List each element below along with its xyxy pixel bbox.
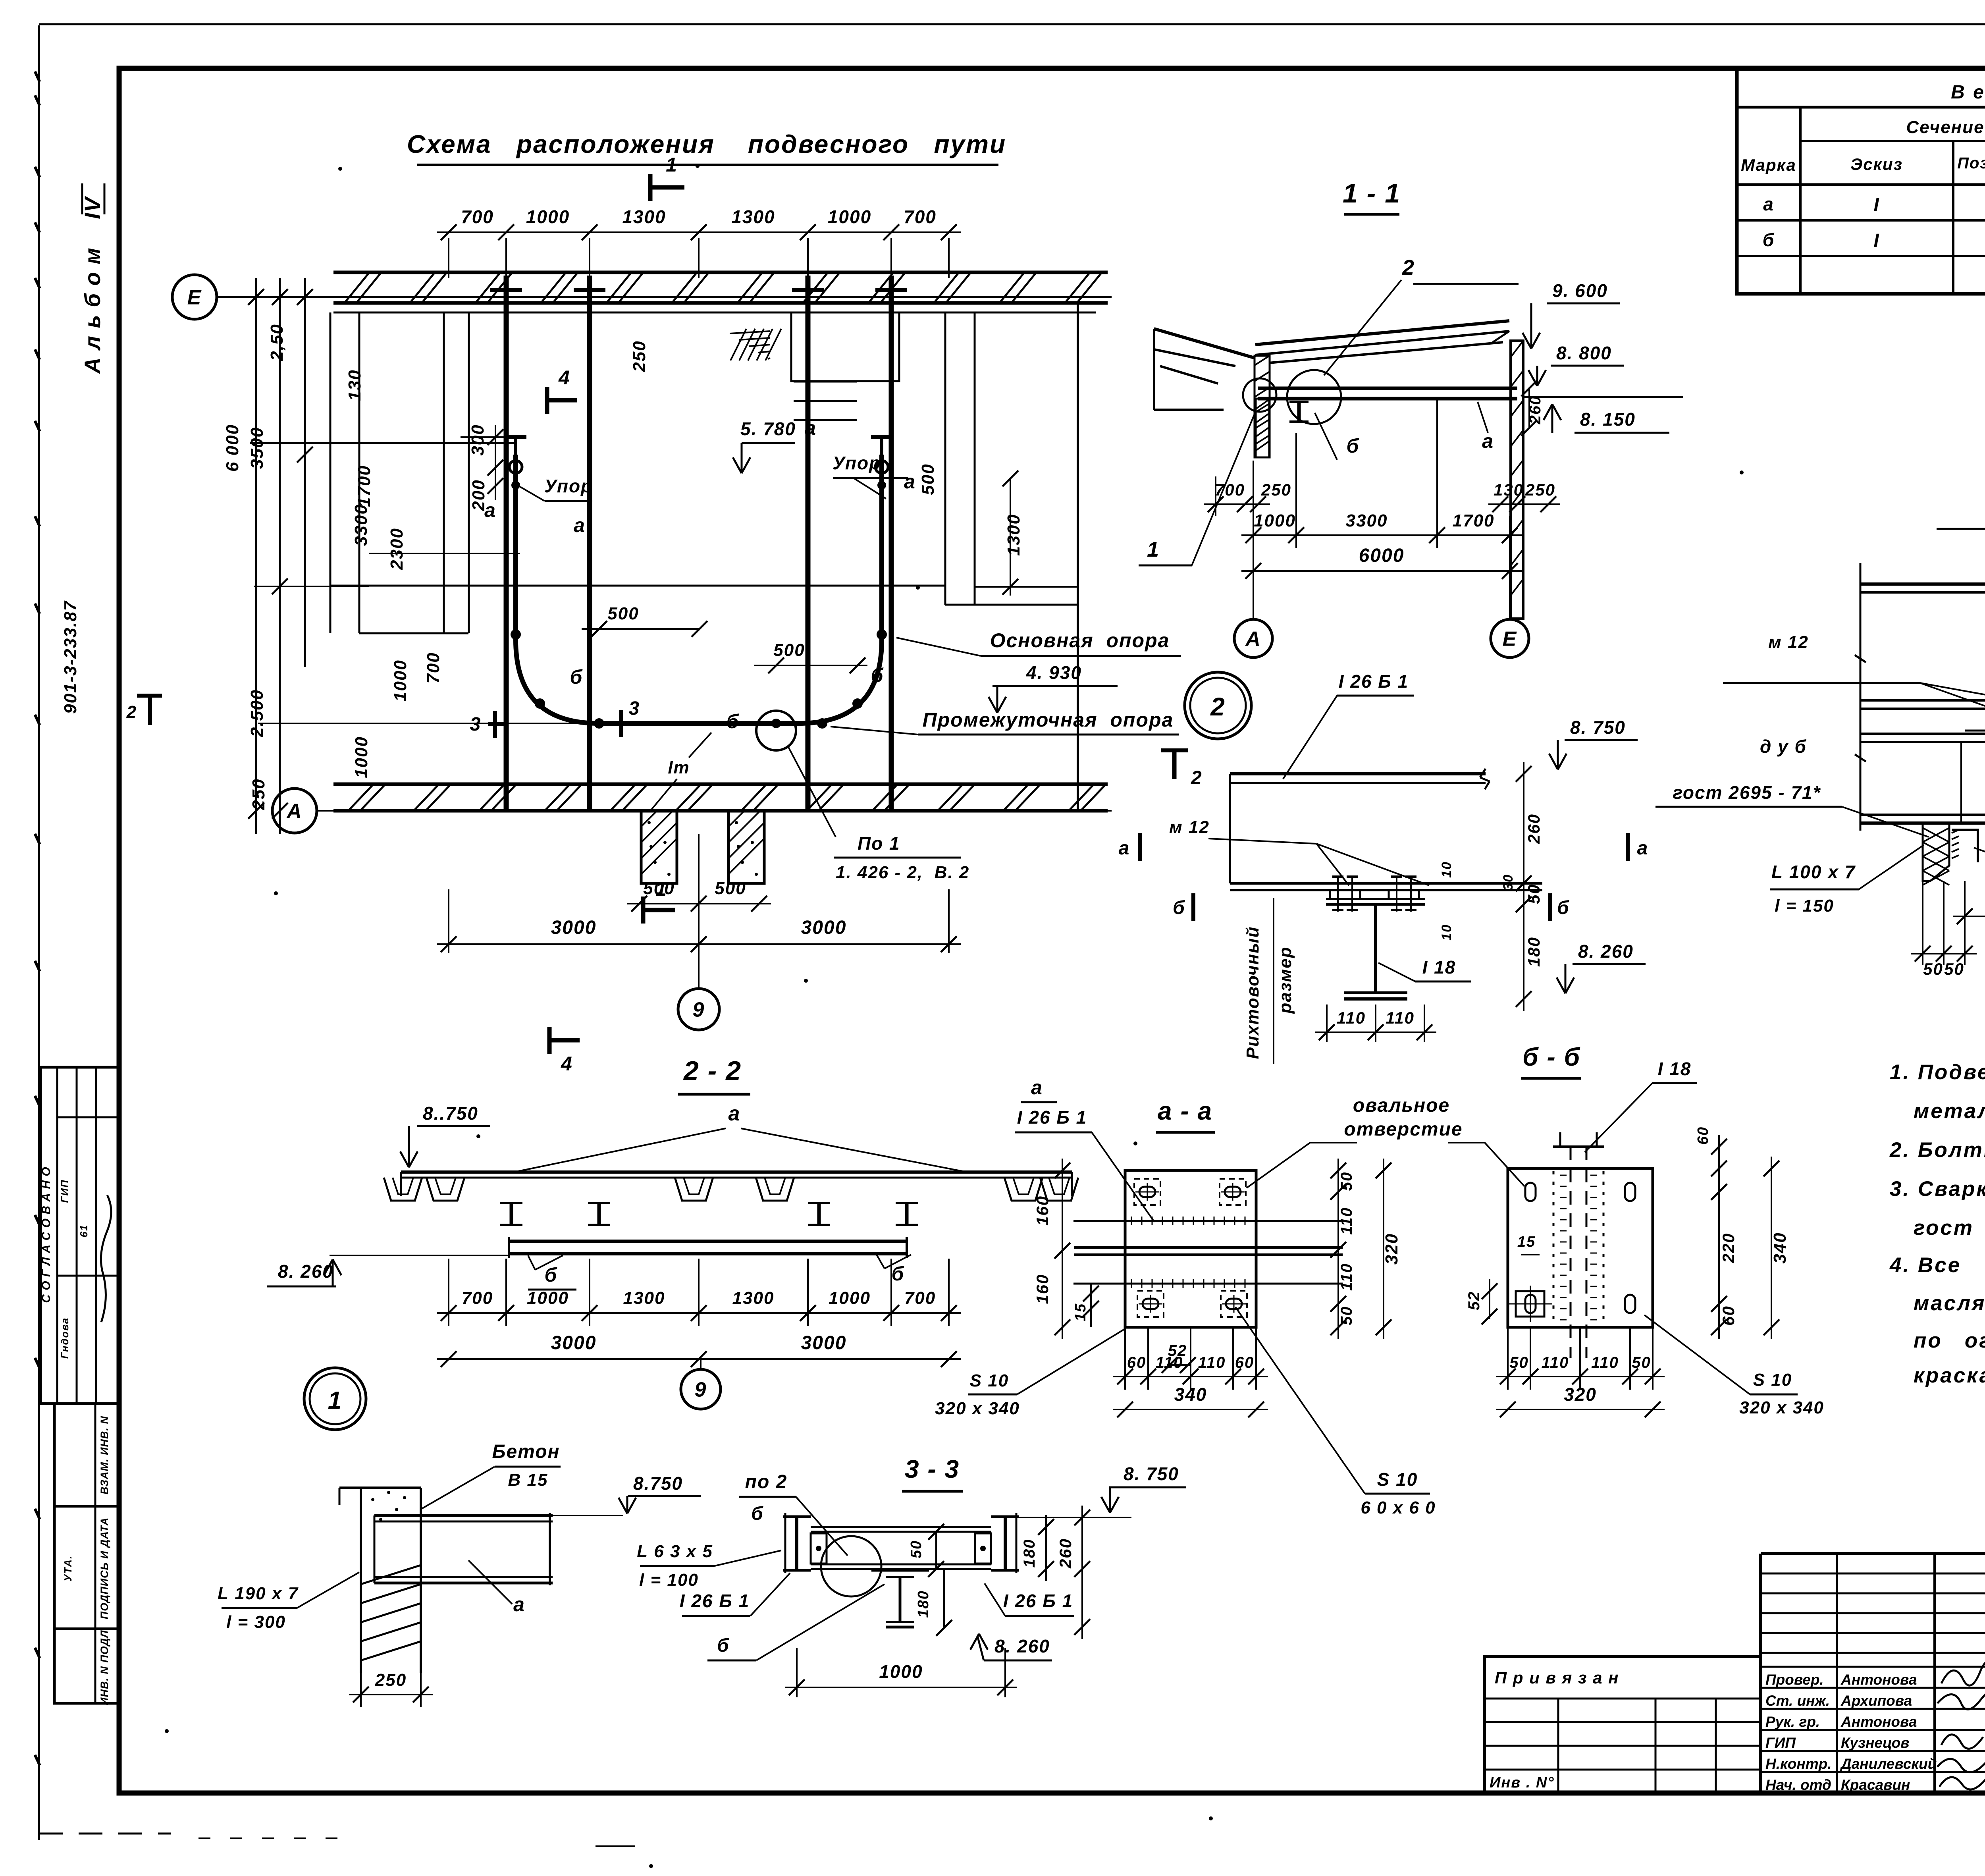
suspension beam a3 bbox=[806, 276, 811, 810]
svg-text:8..750: 8..750 bbox=[423, 1103, 478, 1124]
interior floor line bbox=[330, 585, 945, 587]
svg-text:а: а bbox=[805, 417, 817, 439]
svg-text:50: 50 bbox=[908, 1540, 925, 1558]
detail2 top beam bbox=[1230, 772, 1486, 775]
svg-text:3000: 3000 bbox=[551, 1332, 597, 1353]
svg-text:110: 110 bbox=[1337, 1008, 1366, 1027]
a-a bottom dims bbox=[1124, 1327, 1126, 1390]
svg-text:60: 60 bbox=[1235, 1354, 1255, 1371]
svg-text:250: 250 bbox=[375, 1670, 407, 1690]
svg-text:Эскиз: Эскиз bbox=[1850, 155, 1903, 174]
svg-text:320: 320 bbox=[1564, 1384, 1597, 1405]
svg-text:Провер.: Провер. bbox=[1765, 1672, 1824, 1688]
svg-text:1300: 1300 bbox=[1004, 514, 1023, 556]
svg-text:700: 700 bbox=[424, 652, 443, 683]
title block central grid bbox=[1759, 1554, 1762, 1793]
detail2 bolt pads bbox=[1330, 890, 1360, 899]
3-3 left I-beam bbox=[783, 1515, 811, 1518]
3-3 end angles bbox=[811, 1533, 827, 1564]
svg-text:1300: 1300 bbox=[622, 206, 666, 227]
3-3 I18 below bbox=[871, 1570, 929, 1572]
svg-text:I 26 Б 1: I 26 Б 1 bbox=[1017, 1107, 1087, 1128]
2-2 runway beam bbox=[509, 1240, 907, 1243]
svg-text:60: 60 bbox=[1695, 1126, 1711, 1145]
section cut 2 right bbox=[1161, 748, 1188, 752]
svg-text:700: 700 bbox=[461, 206, 494, 227]
svg-text:а: а bbox=[1119, 838, 1130, 859]
paper outer edge left bbox=[38, 25, 40, 1840]
monorail track b U-shape bbox=[516, 455, 882, 723]
svg-text:3000: 3000 bbox=[801, 1332, 847, 1353]
plan bottom 3000 dims bbox=[448, 889, 449, 953]
svg-text:901-3-233.87: 901-3-233.87 bbox=[61, 600, 80, 714]
svg-text:б: б bbox=[717, 1635, 730, 1656]
svg-text:l = 300: l = 300 bbox=[226, 1612, 286, 1632]
b-b right dims bbox=[1718, 1135, 1720, 1180]
svg-text:3000: 3000 bbox=[551, 917, 597, 938]
beton dim 250 bbox=[360, 1673, 362, 1707]
svg-text:8. 260: 8. 260 bbox=[1578, 941, 1634, 962]
svg-text:110: 110 bbox=[1338, 1263, 1355, 1291]
svg-text:6 0 x 6 0: 6 0 x 6 0 bbox=[1361, 1498, 1436, 1517]
svg-text:l = 150: l = 150 bbox=[1775, 896, 1834, 916]
2-2 detail circle 1 bbox=[304, 1368, 366, 1430]
4-4 left break line bbox=[1860, 563, 1862, 831]
detail2 I18 beam below bbox=[1326, 898, 1425, 900]
svg-text:700: 700 bbox=[904, 1288, 936, 1308]
svg-text:ГИП: ГИП bbox=[1765, 1735, 1796, 1751]
svg-text:I: I bbox=[1873, 195, 1879, 216]
svg-text:ИНВ. N ПОДЛ.: ИНВ. N ПОДЛ. bbox=[98, 1627, 110, 1705]
svg-text:по 2: по 2 bbox=[745, 1471, 788, 1492]
svg-text:ПОДПИСЬ И ДАТА: ПОДПИСЬ И ДАТА bbox=[98, 1517, 110, 1620]
svg-text:м 12: м 12 bbox=[1768, 632, 1809, 652]
svg-text:Антонова: Антонова bbox=[1840, 1672, 1917, 1688]
svg-text:700: 700 bbox=[1215, 480, 1245, 499]
interior niche middle bbox=[791, 312, 899, 381]
svg-text:Е: Е bbox=[187, 286, 202, 309]
svg-text:отверстие: отверстие bbox=[1344, 1119, 1463, 1140]
svg-text:50: 50 bbox=[1923, 960, 1943, 978]
svg-text:I 26 Б 1: I 26 Б 1 bbox=[1339, 671, 1409, 692]
svg-text:50: 50 bbox=[1524, 884, 1543, 904]
svg-text:б: б bbox=[1763, 229, 1775, 250]
svg-text:ГИП: ГИП bbox=[59, 1179, 71, 1203]
svg-text:Нач. отд: Нач. отд bbox=[1765, 1777, 1831, 1793]
svg-text:по огрунтовке . На ездов: по огрунтовке . На ездовую поверхность bbox=[1914, 1329, 1985, 1352]
svg-text:500: 500 bbox=[918, 463, 938, 495]
svg-text:В е д о м о с т ь э л е м: В е д о м о с т ь э л е м е н т о в bbox=[1951, 82, 1985, 103]
scan specks bbox=[338, 167, 342, 171]
4-4 rail beam lines bbox=[1860, 699, 1985, 702]
svg-text:220: 220 bbox=[1719, 1233, 1738, 1263]
svg-text:2.500: 2.500 bbox=[247, 689, 267, 737]
svg-text:340: 340 bbox=[1174, 1384, 1207, 1405]
1-1 roof slab bbox=[1255, 321, 1509, 345]
svg-text:260: 260 bbox=[1056, 1538, 1075, 1569]
svg-text:1: 1 bbox=[666, 154, 678, 176]
svg-text:б - б: б - б bbox=[1522, 1043, 1581, 1071]
section cut 1 bottom bbox=[643, 908, 675, 912]
svg-text:180: 180 bbox=[1021, 1539, 1038, 1568]
svg-text:Н.контр.: Н.контр. bbox=[1765, 1756, 1831, 1772]
svg-text:320 x 340: 320 x 340 bbox=[1739, 1398, 1824, 1417]
svg-text:320: 320 bbox=[1382, 1233, 1401, 1265]
svg-text:S 10: S 10 bbox=[970, 1371, 1009, 1390]
1-1 left roof wedge bbox=[1154, 329, 1255, 358]
b-b plate bbox=[1508, 1168, 1653, 1327]
svg-text:250: 250 bbox=[630, 340, 649, 372]
detail 2 callout circle bbox=[1185, 672, 1251, 739]
svg-text:Схема расположения подвес: Схема расположения подвесного пути bbox=[407, 130, 1006, 158]
svg-text:П р и в я з а н: П р и в я з а н bbox=[1495, 1668, 1619, 1687]
svg-text:52: 52 bbox=[1465, 1291, 1483, 1311]
svg-text:1000: 1000 bbox=[526, 206, 570, 227]
svg-text:Данилевский: Данилевский bbox=[1840, 1756, 1937, 1772]
svg-text:260: 260 bbox=[1524, 814, 1543, 844]
svg-text:Марка: Марка bbox=[1741, 156, 1796, 174]
beton beam a bbox=[374, 1514, 553, 1517]
1-1 bottom dims row2 bbox=[1241, 534, 1522, 536]
svg-text:50: 50 bbox=[1632, 1354, 1651, 1371]
svg-text:Ст. инж.: Ст. инж. bbox=[1765, 1693, 1830, 1709]
section cut 4 bottom bbox=[549, 1038, 580, 1043]
svg-text:110: 110 bbox=[1338, 1207, 1355, 1235]
1-1 leader 2 bbox=[1324, 280, 1401, 375]
b-b beam hidden lines bbox=[1570, 1147, 1572, 1358]
svg-text:50: 50 bbox=[1944, 960, 1964, 978]
svg-text:Гндова: Гндова bbox=[59, 1317, 71, 1359]
2-2 dim chain 1 bbox=[448, 1259, 449, 1326]
svg-text:1700: 1700 bbox=[355, 465, 374, 507]
svg-text:б: б bbox=[1557, 897, 1570, 918]
svg-text:1000: 1000 bbox=[391, 659, 410, 702]
b-b oval holes bbox=[1525, 1183, 1536, 1201]
svg-text:6000: 6000 bbox=[1359, 545, 1405, 566]
3-3 right dims 180 260 bbox=[1045, 1515, 1047, 1581]
plan upor dim chain 300 200 bbox=[495, 425, 496, 500]
svg-text:4. 930: 4. 930 bbox=[1026, 662, 1082, 683]
svg-text:а: а bbox=[904, 470, 916, 493]
section cut 2 left margin bbox=[137, 694, 162, 698]
grid hatch symbol bbox=[730, 329, 746, 361]
a-a oval holes with dashed squares bbox=[1139, 1187, 1155, 1197]
svg-text:Архипова: Архипова bbox=[1840, 1693, 1912, 1709]
svg-text:60: 60 bbox=[1127, 1354, 1147, 1371]
svg-text:Основная опора: Основная опора bbox=[990, 629, 1170, 652]
svg-text:Антонова: Антонова bbox=[1840, 1714, 1917, 1730]
svg-text:110: 110 bbox=[1591, 1354, 1619, 1371]
svg-text:110: 110 bbox=[1542, 1354, 1569, 1371]
concrete pier left bbox=[641, 811, 677, 883]
svg-text:Поз: Поз bbox=[1957, 154, 1985, 172]
svg-text:8. 750: 8. 750 bbox=[1570, 717, 1626, 738]
svg-text:10: 10 bbox=[1439, 924, 1454, 941]
1-1 callout circle 1 bbox=[1243, 378, 1276, 412]
4-4 lower beam lines bbox=[1860, 733, 1985, 735]
svg-text:4: 4 bbox=[561, 1053, 573, 1075]
svg-text:С О Г Л А С О В А Н О: С О Г Л А С О В А Н О bbox=[40, 1166, 53, 1303]
svg-text:3300: 3300 bbox=[1346, 511, 1388, 530]
svg-text:1: 1 bbox=[1147, 538, 1160, 561]
4-4 wooden beam b bbox=[1860, 814, 1985, 816]
svg-text:110: 110 bbox=[1386, 1008, 1415, 1027]
table vedomost elementov bbox=[1737, 67, 1985, 294]
svg-text:8. 750: 8. 750 bbox=[1124, 1463, 1179, 1484]
3-3 right I-beam bbox=[991, 1515, 1019, 1518]
svg-text:30: 30 bbox=[1501, 874, 1516, 891]
a-a plate bbox=[1125, 1170, 1256, 1327]
svg-text:200: 200 bbox=[469, 479, 488, 511]
track stop bars (upor) bbox=[505, 435, 526, 439]
svg-text:8.750: 8.750 bbox=[633, 1473, 683, 1494]
svg-text:I 18: I 18 bbox=[1658, 1059, 1692, 1079]
1-1 axis A bbox=[1234, 619, 1272, 657]
table grid bbox=[1737, 183, 1985, 186]
svg-text:1300: 1300 bbox=[732, 1288, 775, 1308]
svg-text:180: 180 bbox=[915, 1590, 932, 1618]
1-1 right wall bbox=[1511, 341, 1523, 619]
svg-text:4: 4 bbox=[558, 366, 570, 389]
section cut 3 right bbox=[619, 710, 623, 737]
axis circle E bbox=[172, 275, 217, 319]
svg-text:1700: 1700 bbox=[1453, 511, 1495, 530]
4-4 angle piece bbox=[1952, 830, 1978, 862]
svg-text:3. Сварку производить эле: 3. Сварку производить электродами Э 42 bbox=[1890, 1177, 1985, 1201]
2-2 I-beam symbols bbox=[510, 1203, 513, 1225]
node callout Po1 circle bbox=[756, 711, 796, 750]
svg-text:52: 52 bbox=[1168, 1342, 1187, 1359]
svg-text:2: 2 bbox=[1210, 692, 1226, 721]
svg-text:А л ь б о м IV: А л ь б о м IV bbox=[80, 195, 105, 374]
svg-text:S 10: S 10 bbox=[1377, 1469, 1418, 1490]
svg-text:а: а bbox=[513, 1593, 525, 1616]
svg-text:500: 500 bbox=[715, 879, 746, 898]
axis circle A bbox=[272, 789, 317, 833]
detail2 bottom dims 110 110 bbox=[1326, 1005, 1328, 1042]
svg-text:1000: 1000 bbox=[352, 736, 371, 778]
svg-text:1: 1 bbox=[328, 1387, 342, 1414]
paper torn bottom edge bbox=[39, 1833, 171, 1835]
svg-text:15: 15 bbox=[1517, 1234, 1536, 1250]
svg-text:1. Подвесные пути крепятся: 1. Подвесные пути крепятся к балкам bbox=[1890, 1060, 1985, 1084]
svg-text:50: 50 bbox=[1338, 1172, 1355, 1191]
svg-text:2 - 2: 2 - 2 bbox=[683, 1056, 742, 1086]
svg-text:1000: 1000 bbox=[829, 1288, 871, 1308]
svg-text:а - а: а - а bbox=[1158, 1097, 1212, 1125]
svg-text:б: б bbox=[1173, 897, 1185, 918]
svg-text:9: 9 bbox=[693, 999, 705, 1022]
svg-text:3300: 3300 bbox=[351, 504, 371, 546]
svg-text:Инв . N°: Инв . N° bbox=[1490, 1774, 1555, 1791]
track node dots bbox=[511, 629, 521, 640]
2-2 dim chain 2 bbox=[437, 1358, 961, 1360]
axis line E bbox=[218, 296, 1112, 298]
svg-text:130: 130 bbox=[345, 369, 364, 401]
svg-text:320 x 340: 320 x 340 bbox=[935, 1399, 1020, 1418]
svg-text:краска не наносится.: краска не наносится. bbox=[1914, 1364, 1985, 1387]
svg-text:1000: 1000 bbox=[527, 1288, 569, 1308]
svg-text:а: а bbox=[728, 1102, 741, 1125]
4-4 oak block bbox=[1923, 823, 1949, 881]
svg-text:а: а bbox=[574, 514, 586, 536]
3-3 channel beam bbox=[811, 1526, 991, 1528]
svg-text:I: I bbox=[1873, 230, 1879, 251]
svg-text:д у б: д у б bbox=[1760, 736, 1807, 757]
a-a right dims bbox=[1337, 1159, 1339, 1339]
svg-text:L 190 x 7: L 190 x 7 bbox=[218, 1584, 299, 1603]
svg-text:б: б bbox=[751, 1503, 764, 1524]
svg-text:3000: 3000 bbox=[801, 917, 847, 938]
svg-text:180: 180 bbox=[1524, 937, 1543, 967]
svg-text:А: А bbox=[286, 800, 303, 823]
plan left extension lines bbox=[250, 442, 516, 444]
paper outer edge top bbox=[39, 23, 1985, 25]
svg-text:9: 9 bbox=[695, 1379, 707, 1402]
svg-text:4. Все металлоконструкции: 4. Все металлоконструкции окрасить за 2 … bbox=[1889, 1253, 1985, 1277]
svg-text:а: а bbox=[1482, 430, 1494, 452]
svg-text:гост 2695 - 71*: гост 2695 - 71* bbox=[1673, 782, 1821, 803]
svg-text:б: б bbox=[1347, 435, 1360, 457]
svg-text:2: 2 bbox=[126, 702, 137, 722]
svg-text:Красавин: Красавин bbox=[1841, 1777, 1910, 1793]
interior wall lines right bbox=[944, 312, 946, 605]
detail2 plate lines bbox=[1230, 882, 1542, 885]
svg-text:50: 50 bbox=[1338, 1306, 1355, 1325]
svg-text:8. 800: 8. 800 bbox=[1556, 343, 1612, 363]
svg-text:а: а bbox=[1763, 194, 1774, 214]
paper edge specks bbox=[35, 71, 40, 82]
svg-text:9. 600: 9. 600 bbox=[1552, 280, 1608, 301]
svg-text:130: 130 bbox=[1494, 480, 1524, 499]
top wall band bbox=[333, 271, 1108, 274]
svg-text:1 - 1: 1 - 1 bbox=[1343, 178, 1401, 208]
svg-text:По 1: По 1 bbox=[858, 833, 900, 854]
svg-text:300: 300 bbox=[468, 424, 488, 455]
1-1 runway beam a bbox=[1258, 387, 1517, 390]
svg-text:а: а bbox=[1637, 838, 1649, 859]
plan left dim lines bbox=[255, 278, 257, 834]
svg-text:500: 500 bbox=[643, 879, 675, 898]
svg-text:8. 150: 8. 150 bbox=[1580, 409, 1636, 430]
svg-text:700: 700 bbox=[904, 206, 937, 227]
svg-text:1000: 1000 bbox=[828, 206, 871, 227]
svg-text:3 - 3: 3 - 3 bbox=[905, 1455, 960, 1483]
concrete pier right bbox=[728, 811, 764, 883]
axis circle 9 plan bbox=[698, 834, 700, 988]
svg-text:масляной краской (гост 82 9: масляной краской (гост 82 92 - 85) bbox=[1914, 1292, 1985, 1315]
interior wall lines left bbox=[330, 312, 331, 633]
svg-text:3: 3 bbox=[629, 698, 640, 719]
svg-text:Упор: Упор bbox=[544, 476, 593, 496]
svg-text:L 6 3 x 5: L 6 3 x 5 bbox=[637, 1542, 713, 1561]
svg-text:а: а bbox=[1031, 1076, 1043, 1099]
1-1 wall below beam bbox=[1256, 399, 1269, 457]
svg-text:б: б bbox=[871, 664, 884, 686]
svg-text:1000: 1000 bbox=[1254, 511, 1296, 530]
svg-text:1. 426 - 2, В. 2: 1. 426 - 2, В. 2 bbox=[836, 863, 969, 882]
svg-text:S 10: S 10 bbox=[1753, 1370, 1792, 1390]
svg-text:Промежуточная опора: Промежуточная опора bbox=[923, 709, 1174, 731]
a-a left dims bbox=[1062, 1159, 1063, 1339]
1-1 beam b I-symbol bbox=[1297, 402, 1301, 422]
stamp column vzam inv bbox=[54, 1404, 119, 1703]
svg-text:2: 2 bbox=[1402, 256, 1415, 280]
svg-text:500: 500 bbox=[773, 640, 805, 660]
svg-text:размер: размер bbox=[1276, 946, 1295, 1014]
svg-text:160: 160 bbox=[1033, 1195, 1052, 1226]
svg-text:3500: 3500 bbox=[247, 427, 267, 469]
svg-text:5. 780: 5. 780 bbox=[740, 418, 796, 439]
svg-text:I 18: I 18 bbox=[1422, 957, 1456, 978]
svg-text:гост 9467-75. Катет сварно: гост 9467-75. Катет сварного шва - 6мм. bbox=[1914, 1216, 1985, 1240]
svg-text:б: б bbox=[727, 710, 740, 733]
svg-text:ВЗАМ. ИНВ. N: ВЗАМ. ИНВ. N bbox=[98, 1416, 110, 1494]
svg-text:6 000: 6 000 bbox=[223, 424, 242, 472]
bottom wall band bbox=[333, 783, 1108, 786]
section cut 4 top bbox=[547, 398, 577, 403]
svg-text:б: б bbox=[892, 1263, 905, 1285]
svg-text:I 26 Б 1: I 26 Б 1 bbox=[1003, 1591, 1073, 1611]
1-1 bottom dims row3 bbox=[1241, 570, 1522, 572]
a-a beam through plate bbox=[1073, 1220, 1343, 1222]
svg-text:Е: Е bbox=[1503, 628, 1517, 651]
plan top dimension chain bbox=[448, 238, 449, 278]
4-4 top beam bbox=[1860, 582, 1985, 586]
svg-text:В 15: В 15 bbox=[508, 1470, 548, 1490]
1-1 bottom dims row1 bbox=[1215, 476, 1216, 516]
section cut mark 1 top bbox=[650, 185, 684, 190]
svg-text:250: 250 bbox=[1261, 480, 1291, 499]
svg-text:2. Болты нормальной точно: 2. Болты нормальной точности гост 7798-7… bbox=[1889, 1138, 1985, 1162]
suspension beam a2 bbox=[587, 276, 592, 810]
title block left box bbox=[1484, 1656, 1761, 1793]
2-2 ceiling slabs bbox=[401, 1170, 1072, 1174]
svg-text:61: 61 bbox=[78, 1224, 90, 1238]
svg-text:250: 250 bbox=[249, 778, 268, 810]
svg-text:60: 60 bbox=[1719, 1305, 1738, 1326]
svg-text:160: 160 bbox=[1033, 1274, 1052, 1304]
svg-text:L 100 x 7: L 100 x 7 bbox=[1771, 862, 1856, 882]
beton detail wall bbox=[360, 1488, 362, 1673]
svg-text:Рук. гр.: Рук. гр. bbox=[1765, 1714, 1820, 1730]
svg-text:2: 2 bbox=[1191, 767, 1203, 789]
svg-text:2300: 2300 bbox=[387, 528, 407, 570]
svg-text:10: 10 bbox=[1439, 861, 1454, 878]
detail2 right dim chain bbox=[1523, 762, 1524, 1011]
svg-text:Бетон: Бетон bbox=[492, 1441, 560, 1462]
svg-text:500: 500 bbox=[607, 604, 639, 623]
svg-text:Сечение: Сечение bbox=[1906, 118, 1984, 137]
svg-text:А: А bbox=[1245, 628, 1261, 651]
suspension beam a4 bbox=[889, 276, 894, 810]
svg-text:1000: 1000 bbox=[879, 1661, 923, 1682]
svg-text:l = 100: l = 100 bbox=[639, 1570, 699, 1590]
1-1 left wall bbox=[1255, 356, 1270, 457]
svg-text:Упор: Упор bbox=[833, 453, 881, 473]
svg-text:8. 260: 8. 260 bbox=[994, 1636, 1050, 1656]
b-b bottom dims bbox=[1507, 1327, 1509, 1390]
1-1 callout circle 2 bbox=[1287, 370, 1341, 424]
svg-text:Кузнецов: Кузнецов bbox=[1841, 1735, 1910, 1751]
svg-text:УТА.: УТА. bbox=[62, 1555, 74, 1582]
svg-text:2,50: 2,50 bbox=[267, 324, 287, 361]
svg-text:1300: 1300 bbox=[731, 206, 775, 227]
svg-text:250: 250 bbox=[1525, 480, 1555, 499]
b-b bolt detail lower left bbox=[1516, 1291, 1544, 1317]
svg-text:б: б bbox=[545, 1264, 558, 1286]
axis line A bbox=[318, 810, 1112, 812]
